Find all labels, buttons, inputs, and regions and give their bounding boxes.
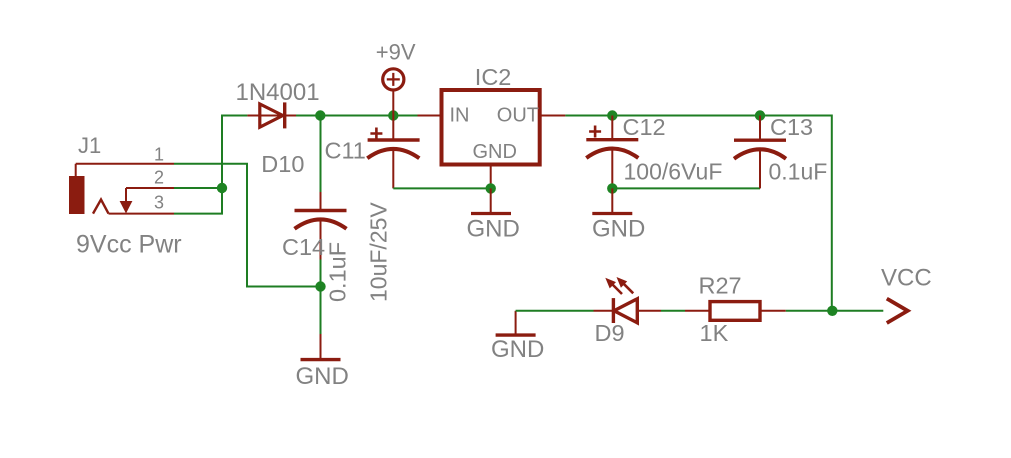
junction dot IC2 GND / C11 [486, 183, 496, 193]
svg-text:C11: C11 [325, 137, 366, 163]
wire R27 to VCC [786, 310, 884, 312]
svg-text:C12: C12 [623, 114, 666, 140]
svg-text:D9: D9 [595, 320, 625, 346]
wire diode cathode to IN junctions [296, 115, 418, 117]
svg-text:D10: D10 [261, 151, 304, 177]
junction dot VCC rail [827, 306, 837, 316]
wire C11 bottom to IC2 GND junction [393, 187, 490, 189]
J1 spring contact [93, 200, 109, 214]
wire net pin3 up to diode anode [174, 116, 247, 214]
svg-text:+9V: +9V [376, 40, 416, 65]
svg-text:OUT: OUT [497, 105, 539, 127]
svg-text:C14: C14 [282, 234, 325, 260]
wire GND to LED [516, 310, 594, 312]
capacitor C12 (polarized) [586, 116, 638, 189]
junction dot C12 top [607, 110, 617, 120]
svg-text:10uF/25V: 10uF/25V [366, 202, 392, 302]
ground symbol under C14 [301, 334, 341, 360]
svg-text:9Vcc Pwr: 9Vcc Pwr [76, 231, 182, 259]
svg-text:GND: GND [473, 141, 517, 163]
svg-text:IN: IN [450, 105, 470, 127]
resistor R27 [685, 302, 786, 321]
svg-text:3: 3 [154, 193, 164, 213]
junction dot C13 top [755, 110, 765, 120]
J1 pin 2 lead [126, 187, 174, 189]
LED arrow 2 [617, 277, 634, 293]
svg-text:GND: GND [296, 363, 349, 390]
wire net pin1 to C14 bottom junction [174, 164, 321, 287]
svg-text:0.1uF: 0.1uF [325, 242, 351, 302]
IC2 regulator box [418, 90, 566, 188]
capacitor C14 [295, 116, 347, 287]
svg-text:1K: 1K [700, 320, 729, 346]
J1 pin 1 lead [76, 163, 174, 165]
svg-text:R27: R27 [699, 273, 742, 299]
svg-text:1N4001: 1N4001 [236, 79, 320, 106]
junction dot pins 2-3 [217, 183, 227, 193]
wire net pin2 to junction [174, 187, 222, 189]
LED D9 [594, 298, 662, 323]
svg-text:J1: J1 [78, 133, 101, 158]
ground symbol under C12 [592, 188, 632, 213]
capacitor C13 [734, 116, 786, 189]
svg-text:0.1uF: 0.1uF [769, 159, 828, 185]
junction dot diode/C14 [315, 110, 325, 120]
ground symbol under IC2 [471, 188, 511, 213]
wire C14 junction down to ground [320, 287, 322, 335]
svg-text:VCC: VCC [881, 265, 932, 292]
svg-text:GND: GND [491, 336, 544, 363]
J1 pin 3 lead [109, 213, 175, 215]
VCC arrow [887, 299, 908, 323]
wire IC2 OUT to C12 C13 and right corner [565, 116, 831, 311]
J1 pin 2 switch arrow [120, 188, 133, 214]
svg-text:2: 2 [154, 168, 164, 188]
svg-text:IC2: IC2 [475, 64, 512, 90]
LED arrow 1 [605, 278, 622, 294]
junction dot +9V/C11 [388, 110, 398, 120]
svg-text:100/6VuF: 100/6VuF [624, 159, 723, 185]
connector J1 body [69, 164, 85, 214]
svg-text:1: 1 [154, 145, 164, 165]
svg-text:GND: GND [467, 216, 520, 243]
junction dot C12 bottom [607, 183, 617, 193]
svg-text:C13: C13 [770, 114, 813, 140]
ground symbol left of LED [496, 311, 536, 335]
wire C12 bottom to C13 bottom [612, 187, 760, 189]
svg-text:GND: GND [592, 216, 645, 243]
wire LED to R27 [661, 310, 685, 312]
supply +9V symbol [383, 69, 404, 116]
capacitor C11 (polarized) [367, 116, 419, 189]
diode D10 [247, 102, 296, 128]
junction dot C14 bottom [315, 281, 325, 291]
